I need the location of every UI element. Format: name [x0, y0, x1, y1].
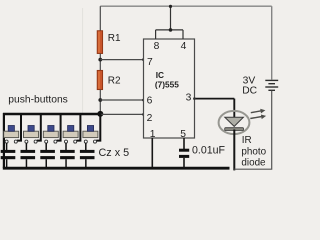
svg-text:IR: IR: [242, 135, 252, 146]
resistor R2: [97, 70, 102, 89]
node: junction to pin 6: [98, 98, 102, 102]
wire: junction to pin 6: [100, 99, 143, 101]
node: junction button rail / pin 2: [97, 111, 103, 117]
wire: junction to pin 7: [100, 59, 143, 61]
svg-text:0.01uF: 0.01uF: [192, 144, 226, 156]
node: pin 6 entry: [142, 99, 145, 102]
wire: pin 5 to capacitor: [183, 138, 185, 149]
wire: pins 8 and 4 supply bridge: [156, 6, 183, 39]
node: pin 2 entry: [142, 113, 145, 116]
resistor R1: [97, 31, 102, 54]
svg-text:photo: photo: [241, 147, 266, 158]
svg-text:Cz x 5: Cz x 5: [99, 147, 130, 159]
wire: top rail to R1: [99, 6, 101, 31]
wire: R2 down to button rail: [99, 89, 101, 114]
node: bridge junction: [169, 28, 173, 32]
capacitor Cz1: [1, 150, 16, 167]
svg-text:push-buttons: push-buttons: [8, 94, 68, 105]
push-button S3: [43, 113, 60, 150]
battery B1 3V: [265, 80, 278, 90]
push-button S1: [4, 113, 21, 150]
wire: top positive rail: [100, 5, 271, 7]
wire: pin 3 output to LED: [194, 98, 234, 100]
capacitor Cz4: [60, 150, 75, 167]
svg-text:7: 7: [147, 57, 153, 68]
node: pin 7 entry: [142, 58, 145, 61]
wire: R1 to R2: [99, 54, 101, 71]
svg-text:4: 4: [181, 41, 187, 52]
wire: battery drop from top rail: [271, 6, 273, 79]
svg-text:(7)555: (7)555: [155, 80, 179, 90]
wire: pin 1 to ground: [151, 138, 153, 167]
capacitor Cz3: [40, 150, 55, 167]
capacitor Cz5: [80, 150, 95, 167]
IR emission arrows: [250, 109, 266, 119]
node: top rail junction: [169, 5, 172, 8]
svg-text:R1: R1: [108, 33, 121, 44]
node: pin 3 exit: [193, 97, 196, 100]
svg-text:R2: R2: [108, 75, 121, 86]
push-button S2: [24, 113, 41, 150]
capacitor C6 0.01uF: [179, 149, 189, 158]
wire: LED anode drop: [233, 99, 235, 118]
wire: junction to pin 2: [100, 113, 143, 115]
wire: push-button supply rail: [3, 113, 99, 115]
svg-text:6: 6: [147, 95, 153, 106]
push-button S4: [63, 113, 80, 150]
IR photo diode D1: [219, 111, 250, 134]
svg-text:IC: IC: [156, 70, 164, 80]
wire: battery negative return: [234, 91, 271, 169]
capacitor Cz2: [21, 150, 36, 167]
ground: bottom rail: [3, 167, 230, 170]
svg-text:2: 2: [147, 113, 153, 124]
push-button S5: [83, 114, 100, 150]
wire: LED cathode down: [233, 130, 235, 171]
wire: left vertical to ground rail: [3, 113, 5, 168]
svg-text:3: 3: [186, 93, 192, 104]
node: junction R1/R2/pin7: [98, 58, 102, 62]
svg-text:8: 8: [154, 41, 160, 52]
wire: capacitor to ground: [183, 158, 185, 168]
wire: faint vertical left of R1: [82, 8, 84, 113]
svg-text:diode: diode: [241, 157, 266, 168]
svg-text:DC: DC: [242, 86, 257, 97]
op-amp/timer IC U1 body: [144, 39, 195, 138]
